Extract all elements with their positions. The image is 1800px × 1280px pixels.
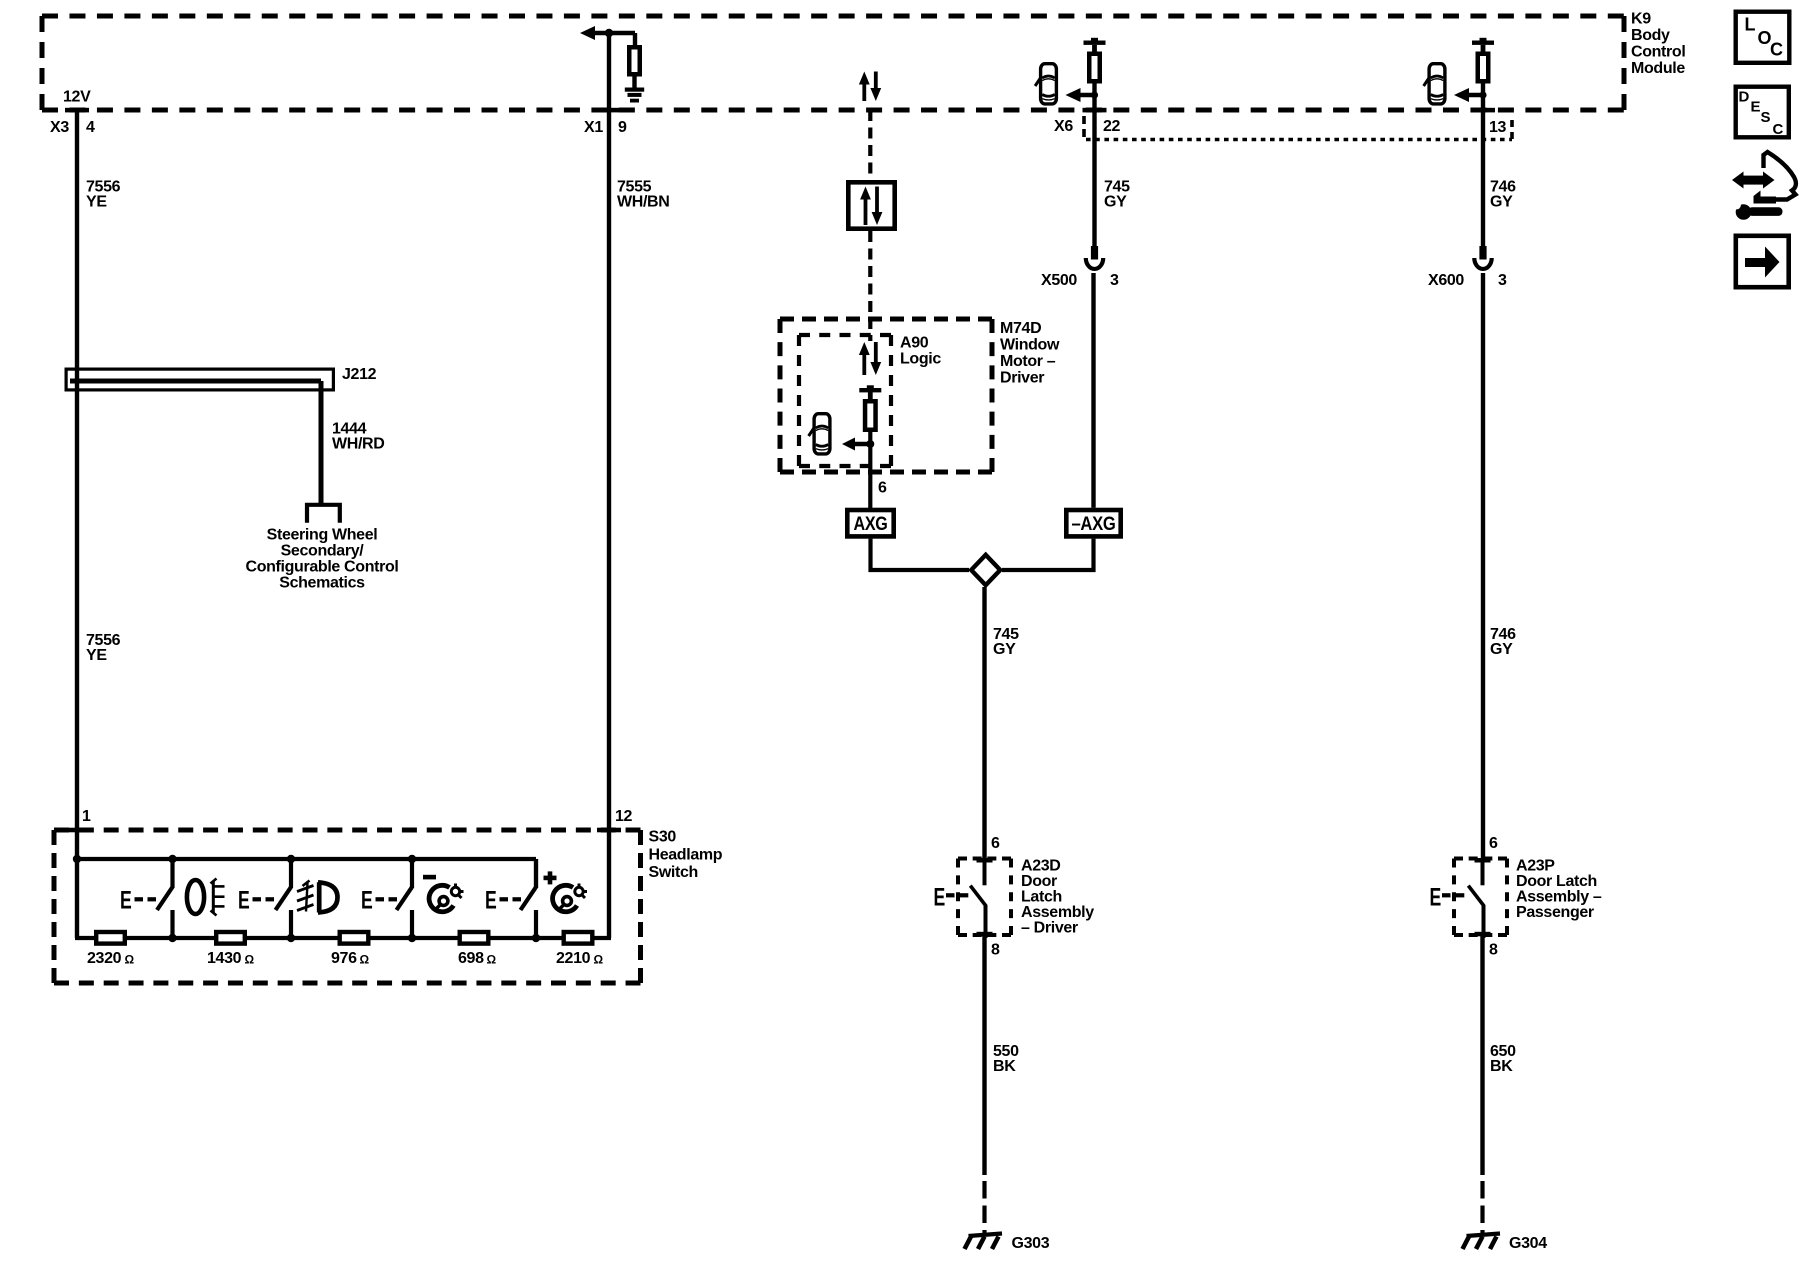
node dot (X6:22 internal) [1091, 91, 1098, 98]
svg-text:Ω: Ω [487, 953, 497, 967]
svg-text:L: L [1745, 15, 1756, 35]
svg-text:D: D [1739, 89, 1750, 106]
switch 3 (dim -) [361, 859, 412, 938]
svg-text:Module: Module [1631, 60, 1685, 77]
svg-text:9: 9 [618, 119, 627, 136]
A23P top terminal crossbar [1475, 858, 1491, 863]
minus sign [423, 875, 436, 880]
S30 corner wire to switch 4 [534, 859, 538, 888]
up/down arrows inside A90 [859, 342, 881, 375]
A23P switch stub + blade [1468, 860, 1484, 938]
svg-text:S: S [1761, 109, 1771, 126]
svg-text:698: 698 [458, 950, 484, 967]
icon headlamp low beam [297, 881, 338, 913]
pin X3:4 tick [65, 108, 89, 113]
component A23P Door Latch Assembly - Passenger (dashed box) [1454, 859, 1507, 936]
sidebar icon forward arrow box [1736, 236, 1789, 287]
svg-text:S30: S30 [649, 829, 677, 846]
svg-text:E: E [120, 887, 132, 915]
A23D switch stub + blade [970, 860, 986, 938]
svg-text:1430: 1430 [207, 950, 242, 967]
node dots bottom bus [168, 934, 540, 942]
wire 7555 WH/BN (X1:9 to S30:12) [607, 33, 611, 938]
svg-text:Latch: Latch [1021, 889, 1062, 906]
dashed logic wire (BCM to A90) upper [868, 110, 872, 179]
car icon inside A90 [809, 414, 830, 454]
svg-text:J212: J212 [342, 366, 377, 383]
label M74D Window Motor - Driver [1000, 320, 1060, 387]
svg-text:WH/RD: WH/RD [332, 436, 384, 453]
splice diamond [971, 555, 1000, 585]
ground G303 [965, 1234, 1003, 1250]
car icon (passenger window motor) [1424, 64, 1445, 104]
svg-text:Driver: Driver [1000, 370, 1044, 387]
wire: BCM internal horizontal w/ left arrow [580, 26, 635, 46]
resistor (BCM internal pull-up at X1) [629, 47, 640, 74]
label Steering Wheel Secondary/Configurable Control Schematics [246, 527, 399, 592]
svg-text:E: E [238, 887, 250, 915]
resistor 2320 ohm [96, 932, 125, 944]
svg-text:Window: Window [1000, 337, 1060, 354]
svg-text:GY: GY [1490, 194, 1513, 211]
svg-text:GY: GY [993, 641, 1016, 658]
svg-text:Passenger: Passenger [1516, 904, 1594, 921]
svg-text:X3: X3 [50, 119, 69, 136]
svg-text:C: C [1773, 121, 1784, 138]
block A90 Logic (inner dashed box) [799, 335, 891, 466]
off-page bracket (to steering wheel schematics) [307, 505, 340, 523]
svg-text:– Driver: – Driver [1021, 920, 1078, 937]
module K9 Body Control Module (dashed box) [42, 16, 1624, 110]
svg-text:X6: X6 [1054, 118, 1073, 135]
S30 bottom bus segments [75, 936, 611, 940]
svg-text:Ω: Ω [594, 953, 604, 967]
A23D E control [934, 883, 969, 911]
wire 650 BK (A23P to G304) [1480, 935, 1484, 1175]
svg-text:GY: GY [1490, 641, 1513, 658]
svg-text:Steering Wheel: Steering Wheel [267, 527, 378, 544]
svg-text:Motor –: Motor – [1000, 353, 1056, 370]
connector X500 inline [1091, 246, 1098, 260]
svg-text:Body: Body [1631, 27, 1670, 44]
S30 top bus [77, 857, 536, 861]
svg-text:BK: BK [1490, 1058, 1513, 1075]
label S30 Headlamp Switch [649, 829, 723, 882]
svg-text:1: 1 [82, 808, 91, 825]
A23P E control [1430, 883, 1465, 911]
switch S30 Headlamp Switch (dashed box) [54, 830, 641, 983]
up/down arrows (window logic, above BCM edge) [859, 72, 881, 102]
terminal T at X6 internal [1084, 41, 1106, 45]
svg-text:2210: 2210 [556, 950, 591, 967]
wire resistor to junction [1481, 84, 1485, 111]
resistor inside A90 [865, 401, 876, 430]
svg-text:13: 13 [1489, 119, 1507, 136]
pin S30:1 tick [65, 828, 89, 833]
svg-text:Door Latch: Door Latch [1516, 873, 1597, 890]
svg-text:976: 976 [331, 950, 357, 967]
svg-text:6: 6 [991, 835, 1000, 852]
component A23D Door Latch Assembly - Driver (dashed box) [958, 859, 1011, 936]
svg-text:A90: A90 [900, 335, 929, 352]
switch 4 (bright +) [485, 859, 536, 938]
wire 746 GY (X600 to A23P) [1481, 273, 1485, 860]
svg-text:E: E [361, 887, 373, 915]
resistor (BCM internal at X6:22) [1089, 54, 1100, 82]
svg-text:WH/BN: WH/BN [617, 194, 669, 211]
svg-text:22: 22 [1103, 118, 1121, 135]
node dot (X6:13 internal) [1479, 91, 1486, 98]
svg-text:YE: YE [86, 194, 107, 211]
dashed wire to G303 [982, 1181, 986, 1233]
svg-text:K9: K9 [1631, 11, 1651, 28]
A23D top terminal crossbar [977, 858, 993, 863]
resistor 2210 ohm [564, 932, 593, 944]
svg-text:6: 6 [1489, 835, 1498, 852]
svg-text:6: 6 [878, 480, 887, 497]
node dots top bus [73, 855, 416, 863]
svg-text:E: E [934, 883, 946, 911]
svg-text:12: 12 [615, 808, 633, 825]
svg-text:A23P: A23P [1516, 858, 1555, 875]
pin S30:12 tick [597, 828, 621, 833]
arrow to car inside A90 [842, 438, 855, 451]
svg-text:GY: GY [1104, 194, 1127, 211]
module M74D Window Motor Driver (dashed box) [780, 319, 992, 472]
ground G304 [1463, 1234, 1501, 1250]
dashed wire to G304 [1480, 1181, 1484, 1233]
terminal AXG box [847, 510, 893, 536]
pin X6:22 tick [1083, 108, 1107, 113]
svg-text:Ω: Ω [125, 953, 135, 967]
svg-text:X1: X1 [584, 119, 603, 136]
wire 7556 YE (X3:4 to S30:1) [75, 108, 79, 938]
wire resistor down through box [868, 432, 872, 508]
terminal -AXG box [1066, 510, 1120, 536]
resistor 698 ohm [460, 932, 489, 944]
icon gauge (dim) [429, 884, 463, 912]
svg-text:Configurable Control: Configurable Control [246, 559, 399, 576]
ground (BCM internal) [625, 88, 644, 92]
svg-text:Control: Control [1631, 44, 1685, 61]
connector X600 inline [1479, 246, 1486, 260]
switch 2 (headlamps) [238, 859, 291, 938]
svg-text:E: E [1430, 883, 1442, 911]
svg-text:C: C [1770, 40, 1783, 60]
svg-text:E: E [1751, 99, 1761, 116]
svg-text:Secondary/: Secondary/ [281, 543, 365, 560]
icon gauge (bright) [553, 884, 587, 912]
node dot inside A90 [866, 440, 874, 448]
svg-text:Switch: Switch [649, 864, 698, 881]
pin X6:13 tick [1471, 108, 1495, 113]
wire resistor to junction [1092, 84, 1096, 111]
svg-text:Logic: Logic [900, 351, 941, 368]
svg-text:AXG: AXG [854, 514, 888, 535]
plus sign [544, 871, 557, 884]
svg-text:M74D: M74D [1000, 320, 1041, 337]
svg-text:X500: X500 [1041, 272, 1077, 289]
svg-text:12V: 12V [63, 89, 91, 106]
svg-text:Ω: Ω [245, 953, 255, 967]
svg-text:Schematics: Schematics [279, 575, 365, 592]
svg-text:Assembly: Assembly [1021, 904, 1094, 921]
label K9 Body Control Module [1631, 11, 1685, 78]
svg-text:E: E [485, 887, 497, 915]
dashed wire into A90 [868, 319, 872, 341]
resistor 976 ohm [340, 932, 369, 944]
resistor (BCM internal at X6:13) [1478, 54, 1489, 82]
svg-text:YE: YE [86, 647, 107, 664]
svg-text:X600: X600 [1428, 272, 1464, 289]
pin X1:9 tick [597, 108, 621, 113]
dashed logic wire (box to M74D) lower [868, 231, 872, 319]
A23D bottom terminal crossbar [977, 932, 993, 937]
terminal T at X6:13 internal [1472, 41, 1494, 45]
arrow to car (X6:13) [1454, 88, 1469, 102]
resistor 1430 ohm [216, 932, 245, 944]
wire resistor to ground [632, 77, 636, 89]
wire 746 GY (X6:13 to X600) [1481, 108, 1485, 247]
sidebar icon DESC [1736, 87, 1789, 138]
arrow to car (X6:22) [1066, 88, 1081, 102]
wire X500 to -AXG [1091, 273, 1095, 508]
svg-text:G303: G303 [1012, 1235, 1050, 1252]
sidebar icon diagnostic (arrows + wrench) [1732, 152, 1796, 220]
node junction dot on X1 internal wire [605, 29, 613, 37]
svg-text:2320: 2320 [87, 950, 122, 967]
splice pack J212 [66, 369, 333, 506]
svg-text:Assembly –: Assembly – [1516, 889, 1602, 906]
wire -AXG to splice [1002, 539, 1094, 570]
svg-text:8: 8 [991, 942, 1000, 959]
svg-text:3: 3 [1110, 272, 1119, 289]
wire AXG to splice [871, 539, 970, 570]
label A23P Door Latch Assembly - Passenger [1516, 858, 1602, 922]
svg-text:3: 3 [1498, 272, 1507, 289]
svg-text:BK: BK [993, 1058, 1016, 1075]
svg-text:–AXG: –AXG [1072, 514, 1116, 535]
A23P bottom terminal crossbar [1475, 932, 1491, 937]
connector X6 dotted bracket [1084, 115, 1512, 140]
svg-text:Door: Door [1021, 873, 1057, 890]
svg-text:A23D: A23D [1021, 858, 1061, 875]
terminal T inside A90 [859, 388, 881, 392]
boxed up/down arrows symbol [848, 182, 894, 228]
icon parking lamps [187, 879, 225, 916]
svg-text:Ω: Ω [360, 953, 370, 967]
svg-text:G304: G304 [1509, 1235, 1547, 1252]
svg-text:8: 8 [1489, 942, 1498, 959]
label A23D Door Latch Assembly - Driver [1021, 858, 1094, 937]
sidebar icon LOC [1736, 12, 1790, 63]
wire 745 GY (splice to A23D) [982, 587, 986, 860]
svg-text:4: 4 [86, 119, 95, 136]
svg-text:Headlamp: Headlamp [649, 847, 723, 864]
wire T to resistor [868, 392, 872, 400]
wire 745 GY (X6:22 to X500) [1092, 108, 1096, 247]
switch 1 (parking lamps) [120, 859, 173, 938]
car icon (driver window motor, left) [1035, 64, 1056, 104]
wire 550 BK (A23D to G303) [982, 935, 986, 1175]
